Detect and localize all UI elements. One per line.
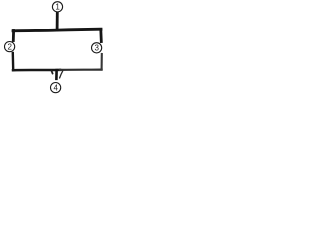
ink blob on bottom wire left of terminal 4 lead xyxy=(51,71,52,74)
wire: right side upper segment (corner to terminal 3 gap) xyxy=(99,30,102,42)
wire: left side upper segment (corner to terminal 2 gap) xyxy=(12,31,15,41)
terminal 4 circle xyxy=(51,83,61,93)
wire: top side of loop xyxy=(13,29,101,31)
wire: bottom side of loop, left half xyxy=(13,69,60,72)
terminal 1 circle xyxy=(52,2,62,12)
wire: lead stub from bottom wire down to terminal 4 xyxy=(55,70,58,79)
terminal 2 circle xyxy=(5,42,15,52)
wire: bottom side of loop, right half xyxy=(60,68,102,71)
wire: lead stub from terminal 1 down to top wire xyxy=(56,13,59,30)
svg-text:2: 2 xyxy=(7,43,12,52)
arrowhead tick right on terminal 4 lead xyxy=(60,71,63,78)
svg-text:4: 4 xyxy=(53,84,58,93)
terminal 3 circle xyxy=(92,43,102,53)
wire: right side lower segment (terminal 3 gap to bottom corner) xyxy=(101,54,103,70)
svg-text:3: 3 xyxy=(94,44,99,53)
wire: left side lower segment (terminal 2 gap to bottom corner) xyxy=(12,53,15,70)
svg-text:1: 1 xyxy=(55,3,60,12)
